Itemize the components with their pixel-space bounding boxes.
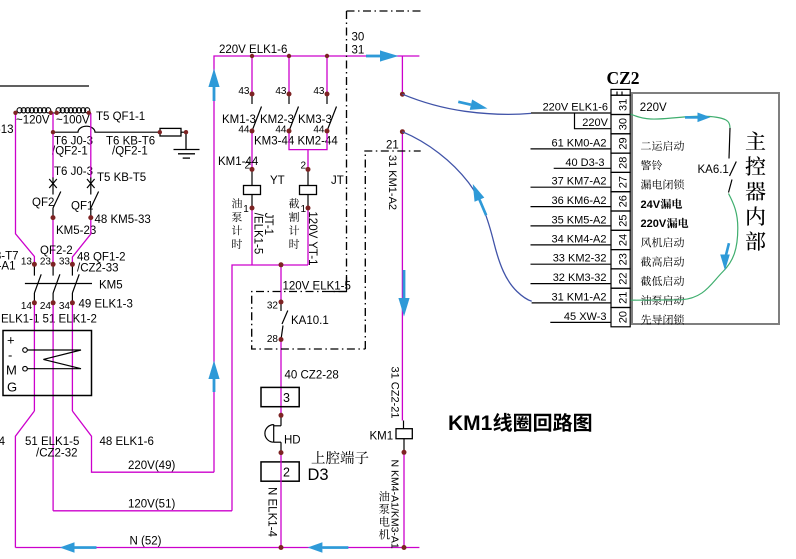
svg-text:35 KM5-A2: 35 KM5-A2 [551, 214, 606, 226]
label 44 x3 [238, 125, 325, 136]
svg-text:JT: JT [331, 175, 344, 187]
wire motor to N (left) [15, 411, 34, 548]
svg-text:220V: 220V [582, 117, 608, 129]
svg-text:KM3-44 KM2-44: KM3-44 KM2-44 [254, 136, 338, 148]
svg-text:44: 44 [238, 125, 250, 136]
connector CZ2 terminal strip [611, 89, 630, 326]
svg-text:120V ELK1-5: 120V ELK1-5 [283, 281, 351, 293]
wire stub 32 KM3-32 [531, 283, 612, 285]
label 8-T7 -A1 [0, 251, 19, 273]
svg-text:-: - [8, 348, 12, 363]
wire right vertical (wire C) [90, 113, 92, 178]
arrow up on 220V feed near motor [208, 361, 219, 393]
svg-text:30: 30 [352, 32, 365, 44]
svg-text:N KM4-A1/KM3-A1: N KM4-A1/KM3-A1 [389, 460, 401, 549]
label 漏电闭锁 [641, 179, 684, 189]
svg-text:48 ELK1-6: 48 ELK1-6 [100, 436, 154, 448]
svg-text:24: 24 [618, 234, 630, 246]
wire stub 37 KM7-A2 [531, 186, 612, 188]
svg-text:220V(49): 220V(49) [128, 460, 175, 472]
motor terminal circle 1 [23, 348, 28, 353]
label 二运启动 [641, 141, 684, 151]
svg-text:32: 32 [267, 301, 279, 312]
terminal box 2 [261, 462, 299, 481]
wire KM5 to motor box phase 1 [33, 303, 35, 411]
svg-text:QF2-2: QF2-2 [40, 245, 73, 257]
wire branch KM1-3 top [251, 56, 253, 94]
lamp HD [265, 415, 281, 452]
svg-text:13: 13 [21, 257, 33, 268]
svg-text:24V: 24V [641, 199, 661, 211]
svg-text:T5 KB-T5: T5 KB-T5 [97, 172, 146, 184]
label 油泵启动 [641, 295, 684, 305]
svg-text:43: 43 [275, 86, 287, 97]
svg-text:43: 43 [238, 86, 250, 97]
arrow right on 220V bus [366, 50, 399, 61]
contact KA10.1 [281, 302, 288, 340]
svg-text:22: 22 [618, 272, 630, 284]
arrow on curve2 pointing up-left [468, 182, 491, 217]
svg-text:4: 4 [0, 436, 6, 448]
wire QF1 to KM5 [72, 218, 90, 265]
svg-text:2: 2 [244, 161, 250, 172]
svg-text:27: 27 [618, 176, 630, 188]
svg-text:21: 21 [618, 292, 630, 304]
arrow on green wire pointing right [685, 113, 711, 123]
label 风机启动 [641, 237, 684, 247]
svg-text:KA6.1: KA6.1 [698, 164, 729, 176]
wire KM1 branch upper [401, 56, 403, 94]
ground [174, 132, 200, 158]
svg-text:40 CZ2-28: 40 CZ2-28 [285, 370, 339, 382]
svg-text:31 CZ2-21: 31 CZ2-21 [389, 367, 401, 419]
wire 120V ELK1-5 horizontal [232, 265, 308, 511]
breaker QF1 [91, 189, 99, 218]
wire stub 220V ELK1-6 to pin31 [531, 112, 611, 114]
PART1 [0, 86, 419, 548]
wire JT-1 down [307, 208, 309, 265]
label 主控器内部 vertical [746, 131, 766, 250]
svg-text:24: 24 [40, 301, 52, 312]
svg-text:N ELK1-4: N ELK1-4 [266, 487, 278, 537]
coil JT [300, 169, 317, 208]
arrow left on N line (left) [60, 542, 97, 552]
svg-text:~100V: ~100V [56, 115, 90, 127]
wire QF2 to KM5 [52, 218, 54, 265]
svg-text:28: 28 [618, 157, 630, 169]
svg-text:31: 31 [618, 99, 630, 111]
motor box [3, 331, 92, 396]
svg-text:3: 3 [283, 391, 290, 405]
label T6 KB-T6 /QF2-1 [106, 136, 155, 158]
wire stub 220V to pin30 [575, 113, 612, 129]
terminal box 3 [261, 387, 299, 406]
label 43 x3 [238, 86, 325, 97]
wire stub 33 KM2-32 [531, 263, 612, 265]
PART4 [60, 50, 731, 552]
wire stub 36 KM6-A2 [531, 206, 612, 208]
contact KM1-3 [252, 94, 262, 131]
svg-text:N (52): N (52) [130, 536, 162, 548]
svg-text:-A1: -A1 [0, 261, 16, 273]
label 上腔端子 [312, 451, 369, 464]
arrow up on 220V feed top [208, 69, 219, 102]
wire branch KM2-3 top [288, 56, 290, 94]
wire stub 40 D3-3 [554, 167, 611, 169]
coil YT [244, 169, 261, 208]
terminal numbers rotated [618, 99, 630, 323]
wire motor to 120V(51) [53, 510, 232, 512]
svg-text:51 ELK1-5: 51 ELK1-5 [25, 436, 79, 448]
label 48 QF1-2 /CZ2-33 [77, 252, 126, 275]
svg-text:25: 25 [618, 215, 630, 227]
svg-text:220V: 220V [640, 102, 667, 114]
dashdot top boundary [347, 10, 421, 12]
resistor [160, 128, 181, 136]
svg-text:QF2: QF2 [32, 197, 54, 209]
svg-text:21: 21 [386, 140, 399, 152]
svg-text:31 KM1-A2: 31 KM1-A2 [386, 155, 398, 210]
solid corner at dashdot A end [330, 277, 347, 292]
contact KA6.1 [729, 128, 737, 193]
svg-text:D3: D3 [308, 466, 329, 484]
label 油泵计时 vertical [232, 198, 242, 249]
label 截低启动 [641, 276, 684, 286]
svg-text:48 KM5-33: 48 KM5-33 [95, 214, 151, 226]
svg-text:120V(51): 120V(51) [128, 499, 175, 511]
svg-text:KM5: KM5 [99, 280, 123, 292]
svg-text:33 KM2-32: 33 KM2-32 [553, 253, 607, 265]
arrow left on N line (right) [308, 542, 349, 552]
contact KM2-3 [289, 94, 299, 131]
svg-text:/CZ2-33: /CZ2-33 [77, 263, 119, 275]
contactor KM5 pole 33-34 [72, 264, 79, 303]
svg-text:32 KM3-32: 32 KM3-32 [553, 272, 607, 284]
wire motor to 220V(49) [72, 411, 214, 472]
annotation curve junction to pin31 [402, 94, 531, 114]
wire KM1 branch lower [401, 132, 403, 421]
connector X symbol left [49, 178, 57, 190]
KM5 linkage line [25, 283, 92, 285]
svg-text:44: 44 [313, 125, 325, 136]
wire tap to KA10.1 [280, 265, 282, 302]
svg-text:/QF2-1: /QF2-1 [52, 146, 88, 158]
svg-text:20: 20 [618, 311, 630, 323]
svg-text:61 KM0-A2: 61 KM0-A2 [551, 137, 606, 149]
svg-text:14: 14 [21, 301, 33, 312]
junction dots left section [13, 111, 188, 306]
label 截高启动 [641, 257, 684, 267]
svg-text:30: 30 [618, 118, 630, 130]
svg-text:1: 1 [243, 204, 249, 215]
wire stub 45 XW-3 [550, 321, 611, 323]
svg-text:KM1-44: KM1-44 [218, 156, 259, 168]
wire N bus [15, 547, 419, 549]
wire top border line [0, 85, 89, 87]
label T6 J0-3 /QF2-1 [52, 136, 93, 158]
label 警铃 [641, 160, 662, 170]
controller box 主控器内部 [632, 93, 779, 324]
junction dots middle section [250, 54, 407, 550]
contactor KM5 pole 23-24 [53, 264, 60, 303]
svg-text:37 KM7-A2: 37 KM7-A2 [551, 176, 606, 188]
svg-text:49 ELK1-3: 49 ELK1-3 [79, 299, 133, 311]
svg-text:M: M [6, 363, 17, 378]
svg-text:26: 26 [618, 195, 630, 207]
wire left vertical (wire A) [16, 113, 35, 264]
wire HD to N [280, 453, 282, 548]
green wire KA6.1 to pin21 [631, 194, 738, 301]
svg-text:+: + [7, 333, 15, 348]
annotation curve pin21 to junction [402, 132, 531, 302]
coil KM1 [396, 421, 412, 453]
svg-text:36 KM6-A2: 36 KM6-A2 [551, 195, 606, 207]
svg-text:-13: -13 [0, 124, 14, 136]
svg-text:29: 29 [618, 137, 630, 149]
svg-text:28: 28 [267, 334, 279, 345]
label 先导闭锁 [641, 314, 684, 324]
svg-text:2: 2 [283, 466, 290, 480]
svg-text:T5 QF1-1: T5 QF1-1 [96, 111, 145, 123]
transformer winding ~100V [50, 108, 89, 113]
svg-text:34: 34 [59, 301, 71, 312]
transformer winding ~120V [17, 108, 51, 113]
svg-text:23: 23 [618, 253, 630, 265]
svg-text:44: 44 [275, 125, 287, 136]
svg-text:CZ2: CZ2 [607, 68, 640, 88]
label 油泵电机 vertical [379, 491, 390, 540]
svg-text:40 D3-3: 40 D3-3 [565, 157, 604, 169]
dashdot KA10.1 box [252, 151, 366, 349]
contactor KM5 pole 13-14 [34, 264, 41, 303]
svg-text:KA10.1: KA10.1 [291, 315, 329, 327]
arrow on curve1 pointing right [457, 97, 489, 114]
contact KM3-3 [327, 94, 337, 131]
svg-text:220V: 220V [641, 218, 667, 230]
svg-text:KM1: KM1 [448, 412, 493, 435]
wire branch KM3-3 top [326, 56, 328, 94]
wire YT-1 down [251, 208, 253, 265]
motor terminal circle 2 [23, 366, 28, 371]
green wire 220V to KA6.1 [631, 114, 731, 128]
connector X symbol right [87, 178, 95, 190]
svg-text:2: 2 [300, 161, 306, 172]
wire 220V ELK1-6 bus [214, 56, 419, 472]
svg-text:/QF2-1: /QF2-1 [112, 146, 148, 158]
svg-text:220V ELK1-6: 220V ELK1-6 [543, 102, 608, 114]
svg-text:23: 23 [40, 257, 52, 268]
dashdot 21 marker [364, 150, 420, 152]
svg-text:T6 J0-3: T6 J0-3 [54, 166, 93, 178]
wire KM5 to motor box phase 2 [52, 303, 54, 511]
wire stub 35 KM5-A2 [531, 225, 612, 227]
wire stub 34 KM4-A2 [531, 244, 612, 246]
label 51 ELK1-5 /CZ2-32 [25, 436, 79, 460]
wire KM5 to motor box phase 3 [71, 303, 73, 411]
PART3 [531, 68, 780, 327]
svg-text:/CZ2-32: /CZ2-32 [36, 448, 78, 460]
arrow down on KM1 branch [398, 270, 409, 317]
breaker QF2 [53, 189, 61, 218]
motor zigzag [27, 350, 81, 369]
label 截割计时 vertical [289, 198, 299, 249]
svg-text:34 KM4-A2: 34 KM4-A2 [551, 233, 606, 245]
wire stub 31 KM1-A2 [532, 302, 611, 304]
svg-text:HD: HD [284, 435, 301, 447]
svg-text:/ELK1-5: /ELK1-5 [252, 213, 264, 255]
svg-text:31 KM1-A2: 31 KM1-A2 [551, 291, 606, 303]
wire KM1-44 down [251, 131, 253, 169]
svg-text:~120V: ~120V [16, 115, 50, 127]
wire KM2/KM3 44 join [289, 131, 327, 169]
svg-text:1: 1 [300, 204, 306, 215]
wire KA10.1 to terminal 3 [280, 340, 282, 416]
svg-text:31: 31 [352, 45, 365, 57]
dashdot vertical A [346, 11, 348, 292]
wire middle vertical (wire B) [52, 113, 54, 178]
svg-text:ELK1-1 51 ELK1-2: ELK1-1 51 ELK1-2 [1, 314, 97, 326]
svg-text:45 XW-3: 45 XW-3 [564, 311, 607, 323]
PART2 [214, 11, 421, 550]
svg-text:YT: YT [270, 175, 285, 187]
svg-text:QF1: QF1 [71, 201, 93, 213]
label JT-1 /ELK1-5 rotated [252, 213, 275, 255]
wire stub 61 KM0-A2 [531, 148, 612, 150]
svg-text:KM1: KM1 [370, 431, 394, 443]
svg-text:G: G [7, 380, 17, 395]
wire KM1 to N [403, 452, 405, 547]
wire ground tap with hop [53, 126, 186, 132]
svg-text:43: 43 [313, 86, 325, 97]
svg-text:33: 33 [59, 257, 71, 268]
arrow on green wire pointing down [720, 243, 730, 271]
